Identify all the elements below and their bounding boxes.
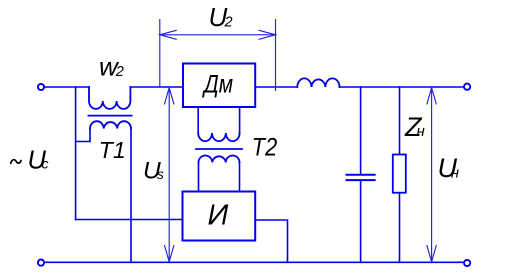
dimension U2: right extension line [275, 19, 277, 91]
capacitor C1: bottom plate [347, 179, 375, 181]
svg-text:2: 2 [115, 64, 124, 80]
svg-text:c: c [42, 156, 49, 172]
block U2: I (inverter) box [183, 192, 256, 241]
dimension U2: dimension line with outward arrowheads [160, 34, 276, 36]
wire: I box right output, over and down to bottom rail [255, 220, 287, 262]
wire: T2 secondary right lead down to I box [239, 162, 241, 191]
resistor Zn: load bottom lead [399, 193, 401, 263]
capacitor C1: top plate [347, 174, 375, 176]
dimension Un: vertical double arrow between rails at right [431, 88, 433, 262]
svg-text:Дм: Дм [201, 71, 233, 99]
resistor Zn: load top lead [399, 87, 401, 155]
wire: top rail from inductor to right terminal [340, 86, 464, 88]
label ~ Uc (source voltage) [11, 160, 22, 164]
terminal: bottom-left input circle [38, 260, 44, 266]
block U1: Dm (demodulator) box [183, 64, 255, 108]
wire: T1 secondary right end down to bottom rail [130, 129, 132, 263]
wire: horizontal feed from left vertical into I box [76, 219, 183, 221]
svg-text:T2: T2 [252, 134, 277, 162]
core: T1 transformer core line [88, 115, 131, 117]
dimension U2: left extension line [159, 19, 161, 87]
wire: left vertical branch from top rail down [75, 87, 77, 220]
resistor Zn: load rectangle [393, 155, 406, 193]
svg-text:И: И [208, 200, 229, 232]
wire: T2 secondary left lead down to I box [198, 162, 200, 191]
terminal: top-left input circle [38, 84, 44, 90]
svg-text:T1: T1 [99, 137, 126, 163]
svg-text:2: 2 [224, 14, 233, 30]
winding: T1 secondary (three upward bumps) [90, 121, 131, 128]
wire: top rail from left terminal to T1 winding [45, 86, 89, 88]
inductor L1: smoothing choke (three bumps) [297, 78, 339, 87]
wire: stub from left vertical to T1 secondary left end [76, 129, 90, 142]
wire: top rail from T1 winding to Dm box [130, 86, 183, 88]
capacitor C1: filter capacitor top lead [360, 87, 362, 174]
svg-text:s: s [157, 167, 164, 182]
wire: Dm box bottom right lead to T2 primary [239, 107, 241, 133]
svg-text:н: н [417, 123, 425, 140]
wire: top rail from Dm box to inductor [255, 86, 297, 88]
winding w2: T1 series winding (three downward scallops) in top rail [89, 87, 130, 109]
wire: Dm box bottom left lead to T2 primary [197, 107, 199, 133]
winding: T2 secondary (three upward bumps) [199, 155, 240, 162]
wire: bottom rail [45, 261, 464, 263]
dimension Us: vertical double arrow between rails [168, 88, 170, 262]
terminal: top-right output circle [464, 84, 470, 90]
core: T2 transformer core line [196, 148, 242, 150]
terminal: bottom-right output circle [464, 260, 470, 266]
capacitor C1: bottom lead [360, 180, 362, 262]
svg-text:н: н [451, 165, 459, 181]
winding: T2 primary (three downward scallops) [198, 133, 239, 141]
